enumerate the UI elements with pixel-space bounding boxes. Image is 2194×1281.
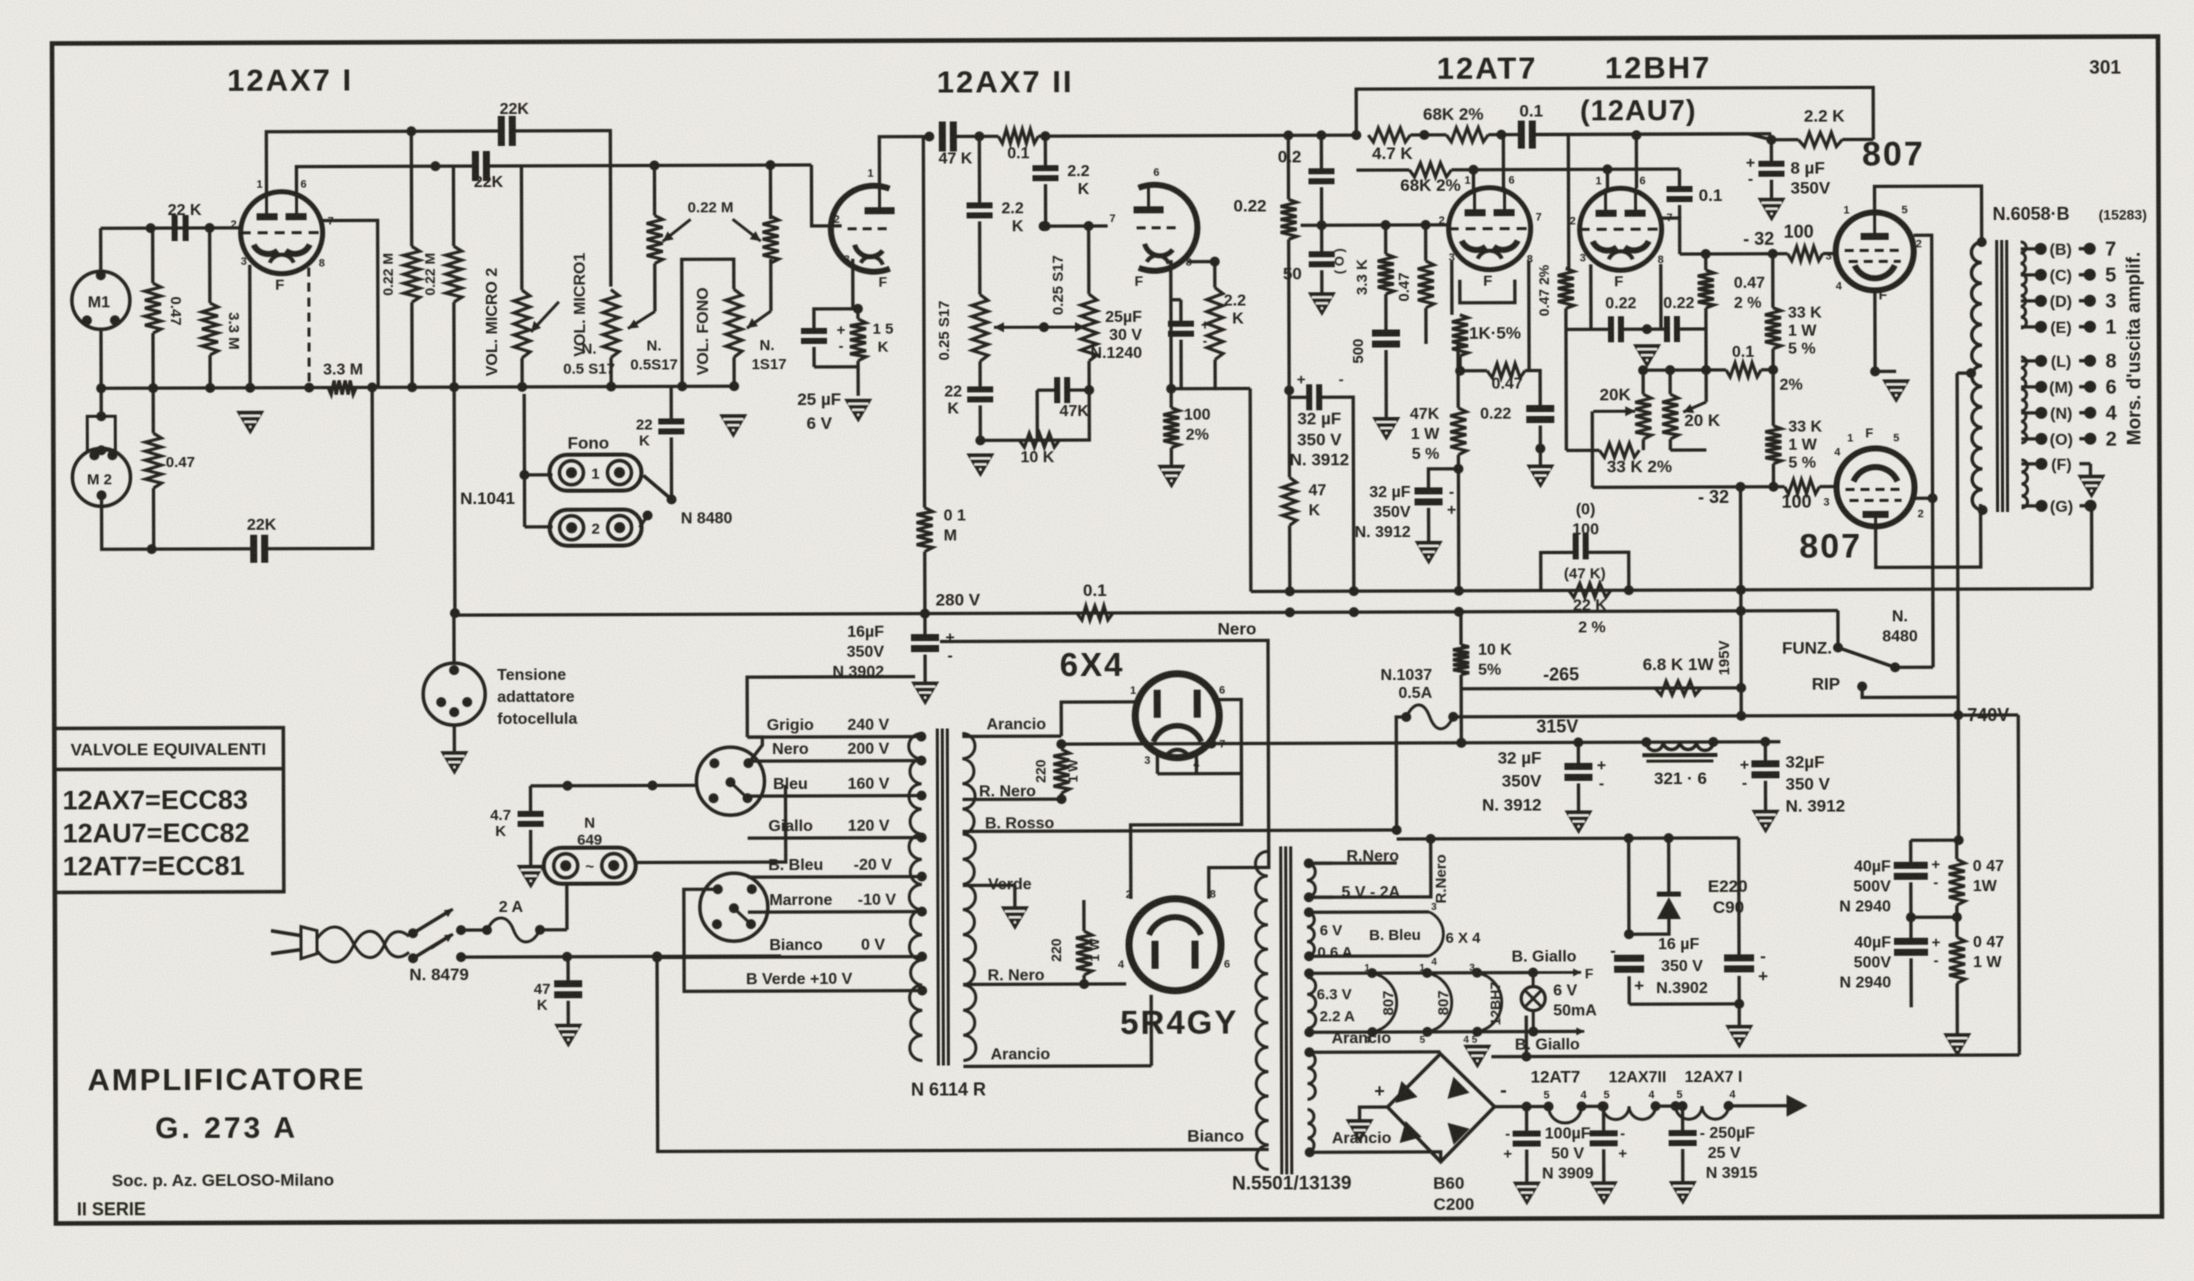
tube label 5R4GY xyxy=(1120,1004,1238,1041)
subtitle GELOSO xyxy=(112,1171,334,1191)
label 12AX7I chain xyxy=(1685,1069,1743,1086)
wire socket1 west xyxy=(696,784,697,787)
resistor 2.2K c xyxy=(1207,288,1223,360)
wire row1 to 2.2K full xyxy=(1532,133,1873,140)
wire V7 plate drop xyxy=(1876,504,1981,567)
wire V1 cathode to ground xyxy=(248,265,252,388)
ground symbol 15K xyxy=(844,399,872,423)
wire 0.2 stem xyxy=(1320,135,1324,225)
pot 20K a xyxy=(1635,394,1651,439)
tube V1 12AX7-I xyxy=(241,192,323,274)
secondary Arancio2 wire xyxy=(963,995,1151,1067)
label 47K interstage xyxy=(938,150,972,167)
grid wire V4 xyxy=(1301,223,1436,227)
wire 20K tops xyxy=(1638,365,1706,394)
wire row1 to 2.2K xyxy=(1532,133,1559,136)
resistor 2.2K top xyxy=(1798,133,1842,147)
label N.1041 xyxy=(460,489,515,508)
capacitor 22K fono xyxy=(658,421,684,431)
wire heater taps xyxy=(1304,906,1579,1037)
tube V2 pin labels xyxy=(833,168,887,290)
label 12AT7=ECC81 xyxy=(63,851,245,882)
wire V1 pin1 riser xyxy=(266,131,501,193)
ground symbol bridge xyxy=(1346,1119,1374,1143)
label 740V xyxy=(1967,705,2009,725)
label 0.1 2pc xyxy=(1732,344,1803,394)
capacitor 0.2 xyxy=(1308,171,1334,181)
bus 740V row xyxy=(1453,715,2018,717)
label Nero 200V xyxy=(772,741,890,758)
transformer T3 left winding xyxy=(1255,851,1268,1169)
tube V3 12AX7-II right half xyxy=(1133,185,1197,271)
ground symbol 0.22 xyxy=(1526,443,1554,488)
label 6.8K 1W xyxy=(1643,655,1715,674)
electrolytic 25uF 30V xyxy=(1168,317,1209,349)
wire 220b xyxy=(1079,900,1089,989)
capacitor 50 (0) xyxy=(1309,254,1335,264)
node dot 652,784 xyxy=(647,780,657,790)
pot VOL FONO xyxy=(726,289,742,357)
bridge minus xyxy=(1500,1080,1507,1102)
driver box top xyxy=(1356,87,1873,141)
label 0.1 12BH7 xyxy=(1699,186,1723,205)
label 2.2K c xyxy=(1224,293,1246,328)
label 0.25 S17 pot b xyxy=(1050,255,1067,315)
label 33K 1W b xyxy=(1788,419,1822,472)
label 3.3M cathode xyxy=(323,361,363,378)
ground symbol 32uFd xyxy=(1752,810,1780,834)
label 0.1 h xyxy=(1007,145,1029,162)
ground symbol 500 xyxy=(1372,417,1400,441)
wire 1290 to bus xyxy=(1288,390,1292,591)
node dot 1323,136 xyxy=(1316,130,1326,140)
wire 10K west xyxy=(980,439,1019,442)
electrolytic 32uF c xyxy=(1564,757,1606,792)
tube V7 807 xyxy=(1836,448,1914,526)
wire Bianco xyxy=(652,949,1269,1151)
label 47K out b xyxy=(1060,403,1090,420)
label R.Nero T1 b xyxy=(988,967,1045,984)
label 16uF 350V N3902 xyxy=(832,624,884,681)
label 12BH7 heater xyxy=(1463,963,1503,1046)
tube label 12BH7 xyxy=(1605,50,1712,85)
node dot 1047,136 xyxy=(1040,131,1050,141)
electrolytic 32uF d xyxy=(1740,757,1780,792)
bridge diodes xyxy=(1395,1077,1469,1145)
choke core xyxy=(1642,755,1717,761)
label 5V-2A xyxy=(1341,884,1400,901)
wire 100uF stems xyxy=(1522,1102,1532,1182)
label 40uF 500V N2940 a xyxy=(1839,858,1891,915)
wire right loop xyxy=(2018,715,2019,1055)
node dot 1358,136 xyxy=(1351,130,1361,140)
label -265 xyxy=(1543,664,1579,684)
label 25uF 6V xyxy=(797,390,841,433)
resistor 0.1 2pc h xyxy=(1726,363,1761,377)
resistor 0.22M b xyxy=(446,246,462,302)
wire 2.2Kb stem xyxy=(978,136,982,294)
resistor 0.47 2pc mid xyxy=(1558,268,1574,308)
resistor 0.47 M2 xyxy=(145,433,161,488)
ground symbol 8uF xyxy=(1758,198,1786,222)
ground symbol 4.7K xyxy=(517,865,545,889)
bus 280V xyxy=(455,611,1838,653)
resistor 01M xyxy=(917,508,933,552)
tube V3 pin labels xyxy=(1109,167,1192,289)
label 12AX7=ECC83 xyxy=(62,785,247,816)
wire 10K5 stems xyxy=(1459,612,1463,689)
wire 1459 to bus xyxy=(1457,469,1461,591)
node dot 152,225 xyxy=(146,223,156,233)
label 0.47 2pc mid xyxy=(1536,264,1552,316)
primary tap 240V wire xyxy=(747,735,921,739)
node dot 656,164 xyxy=(649,160,659,170)
label Bleu 160V xyxy=(773,776,890,793)
electrolytic small right xyxy=(1724,947,1768,986)
ground symbol 50 xyxy=(1308,292,1336,316)
wire fono feed xyxy=(519,394,552,527)
label 0.22M a xyxy=(380,253,396,296)
wire 0.472 stems xyxy=(1565,134,1569,329)
resistor 0.1 280V xyxy=(1077,606,1113,620)
tube V8 pins xyxy=(1130,685,1225,771)
label VOL. MICRO1 xyxy=(572,253,589,357)
wire 33Ka stems xyxy=(1768,249,1778,375)
resistor 0.22 v xyxy=(1281,199,1297,239)
secondary BRosso wire xyxy=(963,825,1402,836)
label 47K 1W 5pc xyxy=(1410,406,1440,463)
title AMPLIFICATORE xyxy=(87,1061,365,1097)
electrolytic 32uF mid xyxy=(1297,371,1344,410)
node dot 772,164 xyxy=(765,160,775,170)
wire 240V riser xyxy=(747,677,915,738)
label 0.47 grid xyxy=(1396,272,1413,301)
wire 32uFc stem xyxy=(1577,742,1581,810)
electrolytic 32uF b xyxy=(1414,484,1456,519)
ground symbol heater xyxy=(1463,1045,1491,1069)
ground symbol 0.22 pair xyxy=(1633,344,1661,368)
ground symbol right cap xyxy=(1725,1025,1753,1049)
resistor 3.3K xyxy=(1378,254,1394,294)
transformer T3 core xyxy=(1281,846,1292,1174)
wire bridge right xyxy=(1495,1105,1549,1108)
label 20K a xyxy=(1600,385,1632,404)
electrolytic 25uF 6V xyxy=(801,322,846,355)
wire V4 pin3 drop xyxy=(1452,261,1515,315)
wire 25uF30 stems xyxy=(1171,300,1181,389)
resistor 33K 1W b xyxy=(1765,426,1781,464)
resistor 0.22M d xyxy=(647,215,663,263)
label R.Nero vertical xyxy=(1433,854,1450,903)
node dots grid wire xyxy=(1317,220,1431,230)
wire 0.22M e leads xyxy=(769,167,773,311)
resistor 68K 2pc row1 b xyxy=(1446,128,1488,142)
node dot 1461,742 xyxy=(1456,738,1466,748)
pot1 wiper arrow xyxy=(628,311,655,328)
label 0.47 2pc right xyxy=(1734,275,1765,312)
label Marrone -10V xyxy=(769,892,896,909)
label N 8480 b xyxy=(1882,608,1918,645)
label 32uF 350V N3912 c xyxy=(1482,749,1542,815)
wire 40uFa stems xyxy=(1906,840,1916,922)
label 0.22M b xyxy=(422,253,438,296)
capacitor 0.22 bh b xyxy=(1667,316,1677,342)
electrolytic 40uF a xyxy=(1894,856,1941,891)
wire V5 pin6 riser xyxy=(1631,130,1641,188)
label 0.2 xyxy=(1278,147,1302,166)
resistor 33K 1W a xyxy=(1765,308,1781,349)
phono jack 1 xyxy=(549,455,641,491)
tube V9 5R4GY xyxy=(1129,899,1221,991)
wire col 1251 xyxy=(1215,388,1251,591)
label Verde xyxy=(988,876,1032,893)
wire N1041 vertical xyxy=(453,387,457,613)
tube label 12AX7 II xyxy=(937,64,1074,99)
wire 2.2Kc stems xyxy=(1166,257,1220,394)
tube label 12AT7 xyxy=(1437,51,1538,86)
wire pot b top xyxy=(1087,226,1091,294)
label 0.22 bh b xyxy=(1663,295,1694,312)
wire 40uFb stems xyxy=(1909,917,1913,1007)
resistor 0.1 h xyxy=(998,129,1038,143)
wire 0.1bh stem xyxy=(1678,169,1681,218)
wire to V2 grid xyxy=(811,165,841,226)
resistor 220 1W a xyxy=(1053,749,1069,793)
ground symbol 100uF xyxy=(1513,1182,1541,1206)
label 0.1 280V xyxy=(1083,581,1107,600)
potF wiper arrow xyxy=(747,311,771,328)
bridge plus xyxy=(1374,1081,1385,1101)
bus -265 xyxy=(1461,686,1741,690)
wire row1 mid xyxy=(1410,130,1446,140)
wire 16uFb bottom xyxy=(1629,976,1744,1009)
node dots bus592 xyxy=(1285,585,1746,597)
wire 33K2 links xyxy=(1566,329,1599,450)
label 32uF 350V N3912 d xyxy=(1785,753,1845,816)
wire V6 plate riser xyxy=(1875,186,1982,242)
resistor 0.47 1W b xyxy=(1949,937,1965,983)
label 4.7K xyxy=(1372,144,1413,163)
phono jack N649 xyxy=(544,848,636,884)
wire 32uF mid link xyxy=(1289,396,1309,399)
label 12AX7II chain xyxy=(1609,1069,1667,1086)
pot VOL MICRO1 xyxy=(603,290,619,358)
label 68K 2pc row2 xyxy=(1400,176,1461,195)
wire 32uFd stem xyxy=(1760,737,1770,810)
heater pin labels xyxy=(1543,1089,1736,1102)
switch FUNZ-RIP xyxy=(1782,638,1958,698)
label N. 0.5S17 pot1 xyxy=(630,337,678,373)
mic connector block M1-M2 xyxy=(87,411,115,455)
mic socket M1 xyxy=(72,270,130,329)
resistor 3.3M V1 grid xyxy=(202,303,218,355)
resistor 0.47 1W a xyxy=(1949,859,1965,905)
label VOL.FONO xyxy=(695,287,712,375)
ground symbol photocell xyxy=(440,751,468,775)
label B60 C200 xyxy=(1433,1174,1474,1214)
wire M1 top xyxy=(99,228,102,275)
wire M2 bottom drop xyxy=(102,498,254,550)
wire 100 to 807 xyxy=(1823,252,1836,255)
wire fuse west xyxy=(1396,717,1406,830)
wire diode string xyxy=(1624,838,1669,939)
label R.Nero T3 xyxy=(1346,848,1399,865)
wire bottom bus xyxy=(1491,1014,2019,1062)
wire 8uF stem xyxy=(1770,140,1773,198)
ground symbol chain b xyxy=(1590,1181,1618,1205)
wire 25uF xyxy=(814,309,858,367)
node dots ground bus xyxy=(96,381,739,393)
wire RNero heater link xyxy=(1309,839,1431,897)
wire 0.47 rail xyxy=(1911,840,1963,1033)
label N. 1S17 potF xyxy=(751,337,786,373)
node dot 981,136 xyxy=(974,131,984,141)
transformer T1 core xyxy=(937,728,948,1065)
label N 6114 R xyxy=(911,1079,986,1099)
transformer T2 core xyxy=(1997,240,2008,512)
fuse 2A xyxy=(482,918,545,942)
label 195V xyxy=(1716,640,1733,675)
mains switch N8479 xyxy=(408,909,453,963)
title G.273 A xyxy=(155,1112,298,1145)
wire chainb stems xyxy=(1599,1101,1609,1181)
resistor 0.47 grid xyxy=(1418,261,1434,308)
label 315V xyxy=(1536,716,1578,736)
transformer T3 right winding groups xyxy=(1307,863,1316,1152)
label Arancio T1 bottom xyxy=(991,1046,1051,1063)
wire 22K fb1 to pots xyxy=(512,131,611,287)
node dot 437,164 xyxy=(430,161,440,171)
label 100 a xyxy=(1784,222,1814,242)
electrolytic 16uF 280V xyxy=(911,629,955,664)
node dot 566,955 xyxy=(562,952,572,962)
label E220 C90 xyxy=(1708,877,1748,917)
selector socket 2 xyxy=(700,873,768,941)
lamp 6V 50mA xyxy=(1521,973,1545,1032)
label N 8480 a xyxy=(681,510,733,527)
wire V2 cathode xyxy=(851,259,854,309)
wire pot a bottom xyxy=(978,361,981,389)
tube V1 pin numbers xyxy=(230,179,334,294)
wire term G xyxy=(2085,500,2097,589)
resistor 10K 5pc xyxy=(1453,645,1469,675)
wire 4.7K stem xyxy=(529,786,533,865)
heater chain arrow xyxy=(1729,1095,1808,1117)
label 32uF 350V N.3912 mid xyxy=(1289,409,1349,469)
ground symbol 100 xyxy=(1157,465,1185,489)
label 22K out a xyxy=(944,383,962,417)
label 321-6 xyxy=(1654,769,1707,788)
label 0.1 row1 xyxy=(1519,102,1543,121)
tube V4 pins xyxy=(1438,175,1542,290)
phono jack 2 xyxy=(550,510,642,546)
tube label 6X4 xyxy=(1060,646,1125,683)
label 0.25 S17 pot a xyxy=(936,300,953,360)
wire photocell stem xyxy=(452,613,456,751)
label 25uF 30V N1240 xyxy=(1090,309,1142,362)
node dot 211,225 xyxy=(205,223,215,233)
wire mains upper xyxy=(461,928,567,932)
resistor 0.22M a xyxy=(404,246,420,302)
label Mors d'uscita xyxy=(2124,252,2146,446)
heater chain dots xyxy=(1544,1101,1734,1112)
label B.Rosso xyxy=(985,815,1055,832)
capacitor 0.1 row1 xyxy=(1521,121,1532,149)
label 68K 2pc row1 xyxy=(1423,105,1484,124)
label -32 xyxy=(1743,229,1774,249)
resistor 10K h xyxy=(1019,433,1059,447)
diode E220 C90 xyxy=(1657,894,1681,919)
photocell connector xyxy=(423,663,485,725)
label Grigio 240V xyxy=(767,717,890,734)
node dot 1958,718 xyxy=(1736,710,1963,721)
wire V2 plate riser xyxy=(879,137,929,187)
wire FUNZ east xyxy=(1895,666,1933,669)
wire 47K b link xyxy=(1037,390,1089,440)
electrolytic 16uF b xyxy=(1610,941,1644,995)
label B.Giallo b xyxy=(1515,1027,1585,1053)
capacitor 22K feedback 1 xyxy=(501,116,512,146)
wire socket2 feed xyxy=(652,889,748,991)
jack selector switch N8480a xyxy=(639,475,676,527)
label 6X4 heater xyxy=(1429,902,1481,968)
ground symbol V1 xyxy=(236,411,264,435)
label Arancio T3 b xyxy=(1332,1130,1392,1147)
wire 15K xyxy=(853,304,863,396)
label 0.47 1W b xyxy=(1973,934,2004,971)
label -32 b xyxy=(1698,487,1729,507)
transformer T1 right winding xyxy=(962,733,976,1060)
capacitor 0.22 left xyxy=(1526,408,1554,419)
label 807 heater b xyxy=(1419,963,1452,1046)
primary lower taps xyxy=(748,877,922,992)
wire 22K fb2 east xyxy=(486,165,811,166)
label 6.3V 2.2A xyxy=(1317,986,1355,1025)
wire 20K bottoms xyxy=(1643,439,1706,450)
wire V4 pin1 riser xyxy=(1472,170,1475,189)
wire V3 cathode leg xyxy=(1171,262,1173,408)
node dot 931,136 xyxy=(924,132,934,142)
wire V6 cathode xyxy=(1875,290,1896,371)
tube V8 6X4 xyxy=(1135,674,1219,758)
loop wires 22K xyxy=(1541,552,1629,590)
capacitor 0.1 12BH7 xyxy=(1667,189,1693,199)
wire V5 pin3 drop xyxy=(1591,264,1661,329)
label 0.47 h xyxy=(1492,376,1523,393)
wire row2 east xyxy=(1451,164,1679,175)
label 0.22M c arrow xyxy=(663,199,761,241)
label R.Nero T1 xyxy=(979,783,1036,800)
wire 47K to 0.1 xyxy=(953,135,998,138)
capacitor 0.22 bh a xyxy=(1611,316,1621,342)
label 0.22 bh a xyxy=(1605,295,1636,312)
wire 0.1 2pc link xyxy=(1706,368,1773,372)
wire 0.22 pair xyxy=(1566,324,1706,334)
label Fono xyxy=(568,434,610,453)
mains plug xyxy=(271,927,317,959)
label VOL. MICRO 2 xyxy=(484,268,501,377)
bus 315V xyxy=(1061,737,1780,749)
secondary Verde wire xyxy=(963,885,1015,906)
label 33K 1W a xyxy=(1788,305,1822,358)
capacitor 500 xyxy=(1372,333,1400,344)
tube label 807 b xyxy=(1799,527,1862,565)
wire 0.472r stems xyxy=(1701,249,1711,329)
wire 0.22v stems xyxy=(1287,135,1291,390)
resistor 0.22M e xyxy=(763,216,779,263)
label (47K) xyxy=(1564,565,1606,582)
transformer T2 primary winding xyxy=(1971,242,1982,510)
